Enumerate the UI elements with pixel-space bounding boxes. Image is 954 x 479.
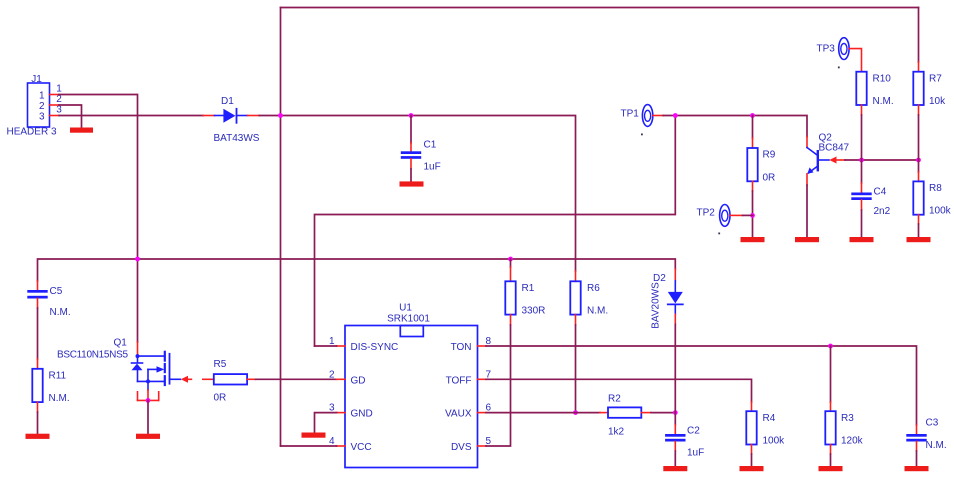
node junction VCC vertical x D1 wire bbox=[278, 113, 283, 118]
ground R8 bbox=[907, 237, 931, 242]
svg-text:R3: R3 bbox=[841, 413, 854, 424]
left vertical with body diode bbox=[137, 356, 139, 363]
gate bar and lead bbox=[169, 354, 171, 384]
svg-text:R5: R5 bbox=[214, 359, 227, 370]
svg-text:R4: R4 bbox=[763, 413, 776, 424]
svg-text:330R: 330R bbox=[522, 306, 546, 317]
svg-text:Q1: Q1 bbox=[114, 338, 128, 349]
ground C1 bbox=[400, 181, 424, 186]
wire VCC left vertical bbox=[280, 8, 282, 447]
source pins red bracket bbox=[137, 392, 139, 401]
resistor R7 bbox=[913, 62, 946, 115]
ground Q1 bbox=[136, 434, 160, 439]
svg-text:R9: R9 bbox=[763, 150, 776, 161]
pin 1 stub bbox=[337, 345, 346, 347]
resistor R1 bbox=[505, 259, 545, 325]
svg-text:BSC110N15NS5: BSC110N15NS5 bbox=[57, 350, 128, 361]
emitter diagonal with arrow bbox=[809, 166, 818, 173]
svg-text:N.M.: N.M. bbox=[49, 393, 70, 404]
svg-text:VAUX: VAUX bbox=[445, 409, 472, 420]
ground C2 bbox=[663, 466, 687, 471]
test point TP2 bbox=[697, 205, 743, 235]
svg-text:VCC: VCC bbox=[351, 442, 372, 453]
wire net row y259 C5 to D2 bbox=[38, 259, 676, 281]
svg-text:0R: 0R bbox=[763, 173, 776, 184]
svg-text:1uF: 1uF bbox=[424, 162, 441, 173]
svg-text:1: 1 bbox=[39, 91, 45, 102]
svg-text:TP2: TP2 bbox=[697, 208, 716, 219]
resistor R6 bbox=[570, 271, 608, 325]
svg-text:DIS-SYNC: DIS-SYNC bbox=[351, 342, 399, 353]
wire Q2 base row to R7/R8 column bbox=[845, 159, 919, 161]
wire Q1 source to ground bbox=[147, 400, 149, 433]
wire TP1 to Q2 collector bbox=[663, 116, 807, 137]
node junction R3 top bbox=[828, 344, 833, 349]
wire R3 to ground bbox=[830, 454, 832, 466]
wire R5 to U1 pin2 bbox=[256, 378, 337, 380]
svg-text:TP1: TP1 bbox=[621, 109, 640, 120]
svg-text:GD: GD bbox=[351, 375, 366, 386]
wire D2 cathode down to C2 bbox=[674, 324, 676, 425]
IC U1 SRK1001 bbox=[329, 303, 492, 468]
wire D1 cathode to R6 column bbox=[259, 116, 575, 272]
node junction base x R7/R8 bbox=[916, 158, 921, 163]
resistor R5 bbox=[203, 359, 256, 404]
svg-text:N.M.: N.M. bbox=[587, 306, 608, 317]
wire VAUX pin6 to R2 bbox=[486, 412, 600, 414]
wire TOFF pin7 row bbox=[486, 379, 752, 402]
svg-text:N.M.: N.M. bbox=[926, 440, 947, 451]
collector diagonal bbox=[807, 148, 818, 156]
svg-text:2: 2 bbox=[39, 101, 45, 112]
wire U1 pin1 bbox=[315, 345, 337, 347]
wire C3 to ground bbox=[916, 451, 918, 466]
ground R3 bbox=[819, 466, 843, 471]
svg-text:C5: C5 bbox=[50, 286, 63, 297]
diode D1 BAT43WS bbox=[203, 96, 260, 144]
base pin red arrow bbox=[829, 157, 836, 164]
svg-text:C1: C1 bbox=[424, 140, 437, 151]
base lead bbox=[818, 159, 829, 161]
svg-text:TP3: TP3 bbox=[817, 44, 836, 55]
wire C2 to ground bbox=[674, 451, 676, 466]
ground Q2 bbox=[795, 237, 819, 242]
node junction C1 bbox=[409, 113, 414, 118]
wire R11 to ground bbox=[37, 412, 39, 434]
svg-text:U1: U1 bbox=[399, 303, 412, 314]
connector J1 bbox=[7, 74, 63, 138]
ground R9/TP2 bbox=[741, 237, 765, 242]
wire R6 bottom to VAUX bbox=[575, 325, 577, 413]
resistor R8 bbox=[913, 160, 951, 224]
svg-text:R2: R2 bbox=[608, 394, 621, 405]
capacitor C5 bbox=[27, 281, 70, 318]
wire Q2 emitter to ground bbox=[806, 185, 808, 237]
test point TP3 bbox=[817, 38, 862, 72]
ground J1 pin2 bbox=[70, 128, 93, 133]
svg-text:1k2: 1k2 bbox=[608, 427, 625, 438]
svg-text:0R: 0R bbox=[214, 393, 227, 404]
svg-text:120k: 120k bbox=[841, 436, 864, 447]
wire U1 pin3 GND drop bbox=[315, 413, 337, 433]
wire J1 pin3 to D1 anode bbox=[59, 115, 203, 117]
svg-text:BAT43WS: BAT43WS bbox=[214, 133, 260, 144]
svg-text:R8: R8 bbox=[929, 183, 942, 194]
wire C5 to R11 bbox=[37, 308, 39, 359]
resistor R11 bbox=[32, 359, 69, 412]
svg-text:C3: C3 bbox=[926, 418, 939, 429]
wire TP2 to R9 column bbox=[743, 214, 753, 216]
channel dashes bbox=[164, 352, 166, 361]
wire top border horizontal bbox=[281, 7, 919, 9]
pin 4 stub bbox=[337, 445, 346, 447]
svg-text:R11: R11 bbox=[49, 371, 67, 382]
svg-text:C4: C4 bbox=[874, 187, 887, 198]
wire R4 to ground bbox=[751, 454, 753, 466]
ground C3 bbox=[905, 466, 929, 471]
capacitor C3 bbox=[906, 418, 946, 452]
resistor R4 bbox=[746, 402, 785, 454]
test point TP1 bbox=[621, 105, 664, 136]
wire C4 to ground bbox=[861, 210, 863, 237]
resistor R9 bbox=[747, 116, 775, 192]
ground R11 bbox=[26, 434, 50, 439]
svg-text:2: 2 bbox=[329, 369, 335, 380]
wire DIS-SYNC net row y214 bbox=[315, 116, 676, 347]
wire R2 to junction bbox=[651, 412, 675, 414]
wire R7 bottom to base row bbox=[918, 115, 920, 160]
svg-text:10k: 10k bbox=[929, 96, 946, 107]
emitter stub bbox=[806, 174, 808, 185]
svg-text:1uF: 1uF bbox=[687, 448, 704, 459]
svg-text:R7: R7 bbox=[929, 74, 942, 85]
svg-text:J1: J1 bbox=[31, 74, 42, 85]
wire R10 bottom to base row bbox=[861, 115, 863, 160]
body arrow bbox=[148, 368, 158, 370]
drain bar to channel bbox=[138, 355, 165, 357]
svg-text:BAV20WS: BAV20WS bbox=[651, 282, 662, 329]
svg-text:SRK1001: SRK1001 bbox=[387, 314, 430, 325]
collector stub bbox=[806, 137, 808, 148]
base bar bbox=[817, 151, 819, 170]
pin 5 stub bbox=[478, 445, 487, 447]
capacitor C1 bbox=[401, 116, 441, 182]
svg-text:N.M.: N.M. bbox=[873, 96, 894, 107]
diode D2 BAV20WS bbox=[651, 269, 683, 329]
svg-text:3: 3 bbox=[39, 112, 45, 123]
svg-text:R1: R1 bbox=[522, 283, 535, 294]
wire R9 bottom to ground bbox=[752, 191, 754, 237]
svg-text:100k: 100k bbox=[929, 206, 952, 217]
capacitor C2 bbox=[665, 425, 704, 459]
svg-text:2: 2 bbox=[56, 94, 62, 105]
node junction TP1 net corner bbox=[673, 113, 678, 118]
svg-text:D1: D1 bbox=[221, 96, 234, 107]
transistor Q2 BC847 bbox=[807, 133, 850, 186]
svg-text:1: 1 bbox=[56, 84, 62, 95]
wire J1 pin1 to vertical bbox=[59, 95, 138, 343]
wire top right vertical to R7 bbox=[918, 8, 920, 63]
svg-text:TON: TON bbox=[451, 342, 472, 353]
transistor Q1 BSC110N15NS5 bbox=[57, 338, 191, 403]
wire R8 to ground bbox=[918, 224, 920, 237]
node junction R2/D2/C2 bbox=[673, 410, 678, 415]
wire U1 pin4 VCC bbox=[281, 445, 337, 447]
pin 8 stub bbox=[478, 345, 487, 347]
wire R1 bottom to DVS pin5 bbox=[486, 325, 511, 446]
node junction R6 x VAUX bbox=[573, 410, 578, 415]
resistor R2 bbox=[600, 394, 651, 438]
svg-text:N.M.: N.M. bbox=[50, 307, 71, 318]
wire J1 pin1 red stub to Q1 drain bbox=[137, 342, 139, 356]
svg-text:C2: C2 bbox=[687, 426, 700, 437]
pin 6 stub bbox=[478, 412, 487, 414]
wire TON pin8 row bbox=[486, 346, 917, 425]
svg-text:R10: R10 bbox=[873, 74, 892, 85]
pin 7 stub bbox=[478, 378, 487, 380]
gate pin red arrow bbox=[181, 376, 188, 383]
svg-text:GND: GND bbox=[351, 409, 373, 420]
ground C4 bbox=[850, 237, 874, 242]
svg-text:R6: R6 bbox=[587, 283, 600, 294]
svg-text:TOFF: TOFF bbox=[446, 375, 472, 386]
wire J1 pin2 to ground bbox=[59, 105, 82, 128]
capacitor C4 bbox=[851, 160, 890, 217]
pin 3 stub bbox=[337, 412, 346, 414]
svg-text:HEADER 3: HEADER 3 bbox=[7, 127, 57, 138]
svg-text:DVS: DVS bbox=[451, 442, 472, 453]
resistor R3 bbox=[825, 346, 863, 454]
node junction J1pin1 x row259 bbox=[135, 257, 140, 262]
pin 2 stub bbox=[337, 378, 346, 380]
svg-text:BC847: BC847 bbox=[819, 143, 850, 154]
ground R4 bbox=[740, 466, 764, 471]
node junction R9 top bbox=[750, 113, 755, 118]
node junction base x R10/C4 bbox=[859, 158, 864, 163]
node junction TP2 bbox=[750, 213, 755, 218]
resistor R10 bbox=[856, 72, 893, 115]
source line bbox=[138, 380, 165, 382]
ground U1 GND bbox=[302, 433, 326, 438]
svg-text:100k: 100k bbox=[763, 436, 786, 447]
node junction R1 top bbox=[508, 257, 513, 262]
node Q1 source joint bbox=[146, 398, 151, 403]
svg-text:3: 3 bbox=[56, 105, 62, 116]
svg-text:2n2: 2n2 bbox=[874, 206, 891, 217]
